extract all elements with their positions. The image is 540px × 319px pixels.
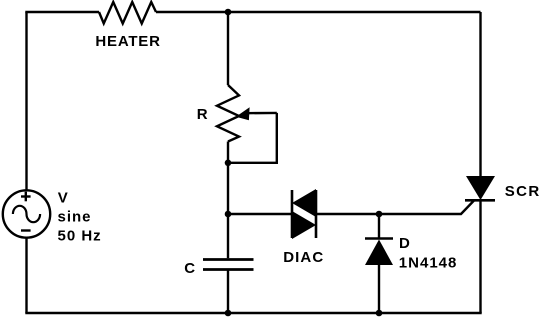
wire: diode bottom [378, 264, 380, 313]
wire: wiper loop [228, 113, 277, 163]
wire: middle vertical to potentiometer [227, 12, 229, 85]
node: diode bottom junction [376, 310, 383, 317]
node: top junction [225, 9, 232, 16]
wire: capacitor bottom [227, 271, 229, 314]
wire: right vertical bottom [479, 200, 481, 313]
capacitor C [203, 260, 254, 270]
scr [465, 176, 495, 200]
diac [292, 189, 316, 239]
svg-text:V: V [58, 189, 69, 206]
svg-text:1N4148: 1N4148 [399, 255, 458, 272]
wire: DIAC right to SCR gate [316, 201, 474, 215]
node: diode top junction [376, 211, 383, 218]
svg-text:DIAC: DIAC [283, 249, 324, 266]
node: capacitor bottom junction [225, 310, 232, 317]
svg-text:50 Hz: 50 Hz [58, 227, 102, 244]
svg-text:C: C [184, 260, 195, 277]
wire: potentiometer bottom to DIAC node [227, 142, 229, 215]
svg-text:R: R [197, 106, 208, 123]
svg-text:sine: sine [58, 209, 92, 226]
wire: DIAC left [228, 213, 292, 215]
resistor HEATER [99, 2, 156, 24]
node: wiper junction [225, 160, 232, 167]
wiper arrow [236, 107, 277, 120]
wire: top right [156, 11, 481, 13]
diode D [365, 239, 393, 266]
voltage source V [3, 190, 50, 237]
svg-text:HEATER: HEATER [95, 33, 160, 50]
wire: capacitor top [227, 214, 229, 258]
wire: left vertical bottom [25, 238, 27, 314]
svg-text:D: D [399, 235, 410, 252]
svg-text:SCR: SCR [505, 183, 540, 200]
potentiometer R [217, 85, 239, 142]
wire: top left [25, 11, 99, 13]
wire: diode top [378, 214, 380, 239]
wire: left vertical top [25, 12, 27, 191]
wire: bottom [25, 312, 481, 314]
wire: right vertical top [479, 12, 481, 177]
node: DIAC capacitor junction [225, 211, 232, 218]
